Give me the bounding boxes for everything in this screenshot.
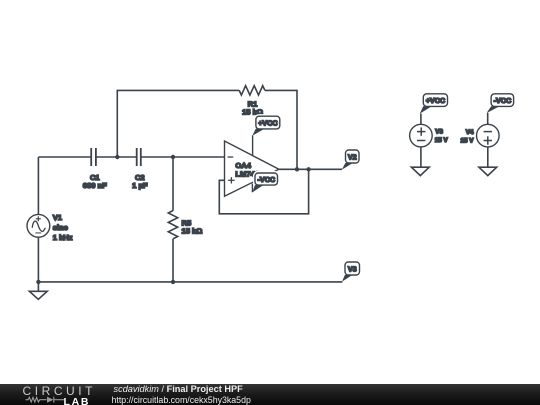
op-amp +VCC supply stub <box>252 135 254 155</box>
op-amp inverting input mark <box>228 156 234 158</box>
op-amp -VCC supply stub <box>251 184 253 193</box>
CircuitLab logo text CIRCUIT <box>23 384 97 398</box>
V4 plus mark <box>484 136 492 144</box>
wire: C2 right plate to op-amp inverting input (node B) <box>141 156 225 158</box>
capacitor C2 plates <box>137 148 141 166</box>
svg-text:V3: V3 <box>435 128 443 135</box>
junction: node A (C1/C2/feedback) <box>115 155 119 159</box>
ground (V3) <box>411 167 429 175</box>
junction: output/+input loop <box>306 167 310 171</box>
ground (main) <box>29 291 47 299</box>
wire: feedback riser from node A and top run to R1 <box>117 90 239 157</box>
flag -VCC (op-amp) <box>252 173 277 193</box>
junction: R5/ground bus <box>171 280 175 284</box>
wire: op-amp output to V2 flag <box>279 168 342 170</box>
svg-text:V4: V4 <box>466 129 474 136</box>
flag V3 (ground bus node) <box>342 262 360 282</box>
footer line 1: author / title <box>114 384 243 394</box>
junction: V1/ground bus <box>36 280 40 284</box>
voltage source V4 circle <box>477 124 500 147</box>
junction: output/feedback <box>295 167 299 171</box>
svg-text:+VCC: +VCC <box>258 118 277 127</box>
svg-text:15 kΩ: 15 kΩ <box>182 226 203 235</box>
V3 bottom stem <box>420 147 422 167</box>
voltage source V3 circle <box>410 124 433 147</box>
svg-text:V1: V1 <box>53 213 63 222</box>
svg-text:-VCC: -VCC <box>258 175 276 184</box>
voltage source V1 circle <box>27 214 50 237</box>
wire: V1 top lead up to main input net <box>37 157 39 215</box>
ground (V4) <box>479 167 497 175</box>
svg-text:15 V: 15 V <box>461 137 475 144</box>
junction: node B (C2/R5/op-amp) <box>171 155 175 159</box>
svg-text:680 nF: 680 nF <box>83 181 107 190</box>
svg-text:1 µF: 1 µF <box>132 181 148 190</box>
svg-text:V3: V3 <box>348 264 357 273</box>
svg-text:sine: sine <box>53 223 68 232</box>
op-amp non-inverting input mark <box>228 177 234 183</box>
wire: V1 bottom lead <box>37 237 39 291</box>
capacitor C1 plates <box>91 148 96 166</box>
V4 bottom stem <box>487 147 489 167</box>
op-amp OA4 triangle <box>225 141 279 196</box>
svg-text:-VCC: -VCC <box>494 96 512 105</box>
CircuitLab logo resistor+diode glyph <box>25 395 65 405</box>
V3 minus mark <box>417 140 425 142</box>
V3 plus mark <box>417 127 425 135</box>
wire: R1 right lead and feedback drop to output node <box>265 90 297 169</box>
resistor R1 zigzag <box>239 86 265 95</box>
svg-text:+VCC: +VCC <box>426 96 445 105</box>
wire: main input net V1 to C1 left plate <box>38 156 91 158</box>
flag +VCC (V3) <box>420 94 448 114</box>
wire: non-inverting input loop to output <box>219 169 308 214</box>
svg-text:OA4: OA4 <box>235 161 251 170</box>
resistor R5 zigzag <box>168 211 177 239</box>
svg-text:15 V: 15 V <box>435 137 449 144</box>
V1 plus mark <box>36 216 41 221</box>
flag -VCC (V4) <box>487 94 514 113</box>
wire: R5 top lead <box>172 157 174 211</box>
svg-text:V2: V2 <box>348 152 357 161</box>
flag V2 (output node) <box>342 150 359 170</box>
wire: R5 bottom lead to ground bus <box>172 239 174 282</box>
voltage source V4 top wire <box>487 113 489 124</box>
svg-text:1 kHz: 1 kHz <box>53 233 73 242</box>
voltage source V3 top wire <box>420 114 422 125</box>
wire: C1 right plate to C2 left plate (node A) <box>96 156 137 158</box>
CircuitLab logo text LAB <box>64 396 91 405</box>
V1 minus mark <box>35 232 41 234</box>
footer bar <box>0 384 540 405</box>
V1 sine symbol <box>32 221 45 231</box>
V4 minus mark <box>484 131 492 133</box>
flag +VCC (op-amp) <box>252 116 279 136</box>
footer line 2: url <box>112 395 251 405</box>
wire: ground bus to V3 flag <box>38 281 342 283</box>
